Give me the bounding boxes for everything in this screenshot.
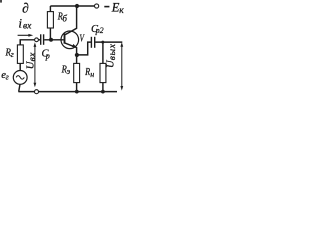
- junction node Rн/rail: [101, 90, 105, 94]
- svg-text:б: б: [62, 14, 67, 24]
- junction node Rэ/rail: [75, 90, 79, 94]
- label Uвых: [106, 43, 119, 68]
- svg-text:г: г: [6, 73, 9, 82]
- AC source eг: [13, 71, 27, 85]
- input terminal (top): [35, 38, 39, 42]
- junction node at base wire: [49, 38, 53, 42]
- resistor Rэ: [74, 63, 80, 82]
- wire: terminal to Cр1: [39, 39, 41, 41]
- svg-text:э: э: [67, 67, 71, 76]
- wire: source to bottom rail: [19, 84, 20, 91]
- label Uвх: [25, 52, 38, 69]
- capacitor Cр1: [40, 34, 42, 45]
- svg-text:н: н: [90, 70, 94, 79]
- emitter lead with arrow: [65, 43, 77, 63]
- top rail: [50, 5, 94, 7]
- bottom rail: [18, 91, 117, 93]
- Uвых measurement arrow: [121, 44, 123, 88]
- svg-text:р2: р2: [95, 26, 104, 35]
- collector lead: [65, 6, 77, 35]
- terminal −Eк: [95, 4, 99, 8]
- resistor Rб: [49, 6, 51, 12]
- svg-text:р: р: [45, 51, 50, 60]
- wire: Cр1 to transistor base: [44, 39, 63, 41]
- svg-text:г: г: [11, 50, 14, 59]
- capacitor Cр2: [90, 37, 92, 48]
- svg-text:V: V: [80, 33, 85, 45]
- label −Eк: [104, 6, 109, 8]
- input current arrow: [18, 34, 31, 36]
- label Rб: [57, 12, 67, 24]
- wire: emitter node to Cр2: [77, 42, 91, 55]
- svg-text:∂: ∂: [22, 1, 29, 16]
- svg-text:вых: вых: [108, 43, 118, 60]
- wire: Rг top to input terminal: [20, 40, 34, 45]
- label Cр2: [91, 24, 104, 35]
- svg-text:к: к: [119, 6, 124, 16]
- label Cр: [42, 48, 50, 60]
- Uвх measurement arrow: [34, 45, 36, 86]
- label Rэ: [61, 65, 71, 77]
- svg-text:i: i: [18, 15, 22, 30]
- resistor Rн: [102, 42, 104, 63]
- wire: Cр2 to output: [95, 41, 122, 43]
- junction node emitter: [75, 53, 79, 57]
- label Rн: [84, 67, 94, 79]
- transistor V circle: [61, 31, 79, 49]
- svg-text:вх: вх: [23, 22, 32, 32]
- junction node collector/rail: [75, 4, 79, 8]
- junction node Rн top: [101, 41, 104, 44]
- transistor base bar: [64, 34, 66, 44]
- label Rг: [5, 47, 14, 59]
- svg-text:вх: вх: [28, 52, 38, 62]
- resistor Rг: [19, 40, 21, 45]
- label i_вх: [18, 15, 32, 31]
- scan speck top-left: [0, 0, 2, 3]
- input terminal (bottom): [35, 90, 39, 94]
- label eг: [1, 70, 9, 82]
